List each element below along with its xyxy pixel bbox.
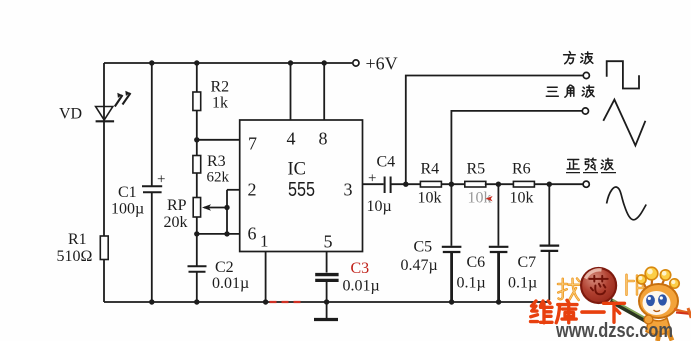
svg-text:6: 6	[248, 224, 257, 244]
svg-text:555: 555	[288, 178, 315, 201]
svg-text:1k: 1k	[212, 95, 228, 112]
svg-text:C2: C2	[215, 259, 234, 276]
svg-text:C6: C6	[467, 254, 486, 271]
svg-text:IC: IC	[288, 160, 307, 180]
svg-text:C5: C5	[414, 239, 433, 256]
svg-text:C7: C7	[518, 254, 537, 271]
svg-text:100µ: 100µ	[111, 201, 144, 218]
svg-text:R4: R4	[421, 161, 440, 178]
svg-text:C3: C3	[351, 260, 370, 277]
svg-text:0.47µ: 0.47µ	[401, 257, 438, 274]
svg-text:0.01µ: 0.01µ	[212, 275, 249, 292]
svg-text:+6V: +6V	[366, 54, 398, 74]
svg-text:C1: C1	[118, 184, 137, 201]
svg-text:+: +	[157, 172, 165, 188]
svg-text:510Ω: 510Ω	[57, 248, 93, 265]
svg-text:5: 5	[324, 232, 333, 252]
svg-text:R2: R2	[211, 79, 230, 96]
svg-text:RP: RP	[167, 197, 187, 214]
svg-text:7: 7	[248, 134, 257, 154]
svg-text:1: 1	[260, 232, 269, 251]
svg-text:0.01µ: 0.01µ	[343, 278, 380, 295]
svg-text:R3: R3	[207, 153, 226, 170]
svg-text:+: +	[368, 171, 376, 187]
svg-text:10µ: 10µ	[367, 198, 392, 215]
svg-text:2: 2	[248, 180, 257, 200]
svg-text:www.dzsc.com: www.dzsc.com	[555, 320, 673, 341]
svg-text:10k: 10k	[418, 190, 442, 207]
svg-text:3: 3	[344, 180, 353, 200]
svg-text:4: 4	[287, 129, 296, 149]
svg-text:62k: 62k	[207, 170, 230, 186]
svg-text:R5: R5	[467, 161, 486, 178]
svg-text:VD: VD	[59, 106, 82, 123]
svg-text:R1: R1	[68, 231, 87, 248]
svg-text:0.1µ: 0.1µ	[508, 275, 537, 292]
svg-text:C4: C4	[377, 154, 396, 171]
svg-text:R6: R6	[512, 161, 531, 178]
svg-text:20k: 20k	[164, 214, 188, 231]
svg-text:8: 8	[319, 129, 328, 149]
svg-text:10k: 10k	[510, 190, 534, 207]
svg-text:0.1µ: 0.1µ	[457, 275, 486, 292]
